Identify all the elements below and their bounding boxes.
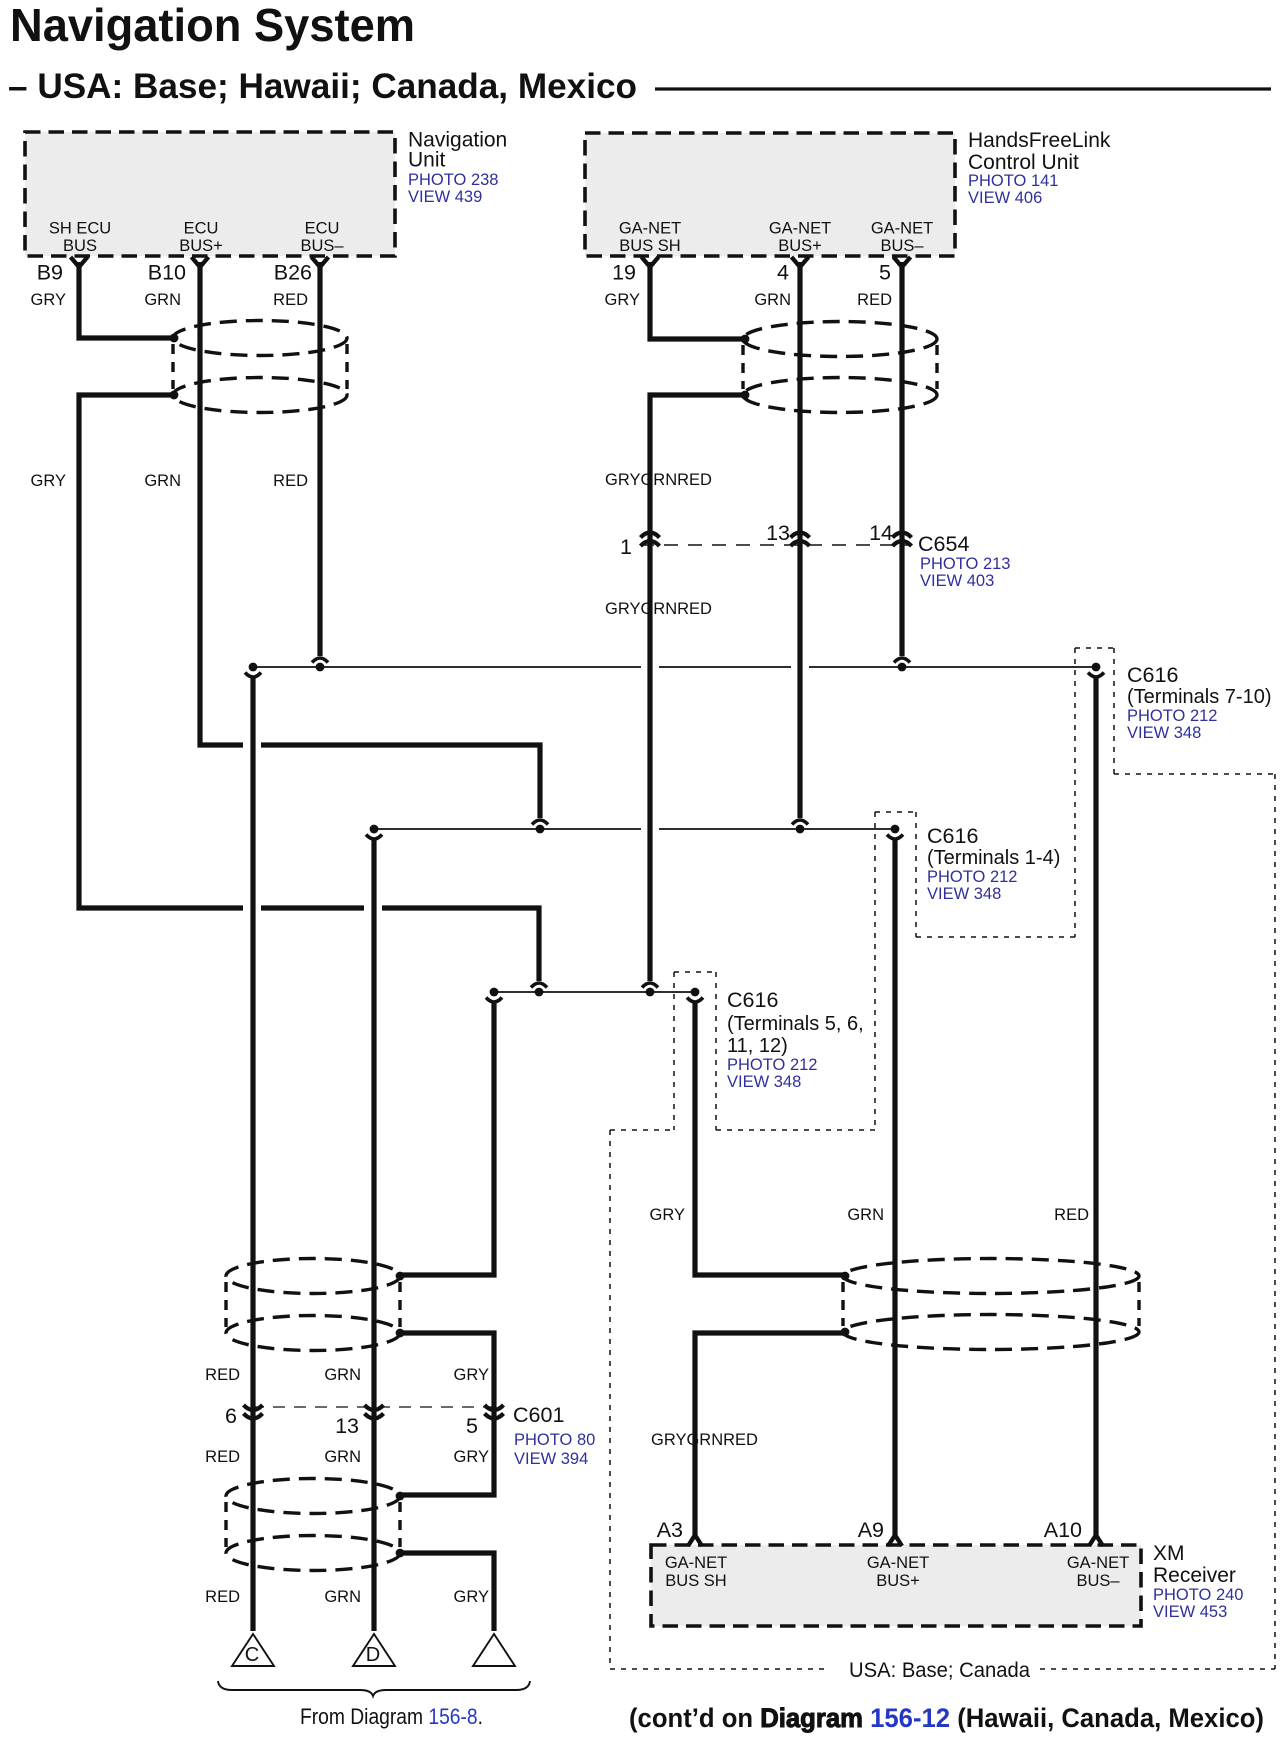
pin 19 — [642, 257, 659, 267]
connector half C616 from GRY right — [642, 983, 658, 988]
svg-text:VIEW 394: VIEW 394 — [514, 1450, 588, 1468]
svg-text:GRY: GRY — [31, 291, 66, 309]
pin B9 — [71, 257, 88, 267]
wire GRY A3 down — [695, 1333, 845, 1536]
svg-text:GA-NET: GA-NET — [665, 1554, 727, 1572]
svg-text:(Terminals 7-10): (Terminals 7-10) — [1127, 686, 1271, 708]
connector half C616 from RED — [312, 658, 328, 663]
svg-text:GA-NET: GA-NET — [871, 220, 933, 238]
svg-text:GRY: GRY — [454, 1366, 489, 1384]
wire GRY segment to C616 5-12 — [382, 908, 539, 981]
svg-text:BUS SH: BUS SH — [665, 1572, 726, 1590]
svg-text:5: 5 — [879, 261, 891, 285]
svg-text:BUS SH: BUS SH — [619, 237, 680, 255]
pin B10 — [192, 257, 209, 267]
junction dot — [170, 334, 179, 343]
C616 7-10 lower half right — [1092, 663, 1101, 672]
svg-text:GA-NET: GA-NET — [1067, 1554, 1129, 1572]
svg-text:GRY: GRY — [454, 1448, 489, 1466]
svg-text:ECU: ECU — [305, 220, 340, 238]
svg-text:C601: C601 — [513, 1403, 564, 1427]
svg-text:1: 1 — [620, 535, 632, 559]
svg-text:Navigation System: Navigation System — [10, 0, 415, 51]
svg-text:C616: C616 — [727, 988, 778, 1012]
svg-text:VIEW 403: VIEW 403 — [920, 572, 994, 590]
junction dot — [396, 1329, 405, 1338]
wire GRY continues to C616 — [650, 395, 745, 981]
wire GRY shield stub — [400, 1333, 494, 1495]
connector C601 line — [252, 1406, 496, 1408]
svg-text:PHOTO 212: PHOTO 212 — [1127, 707, 1217, 725]
svg-text:4: 4 — [777, 261, 789, 285]
svg-text:RED: RED — [273, 291, 308, 309]
svg-text:From Diagram 156-8.: From Diagram 156-8. — [300, 1704, 483, 1729]
svg-text:PHOTO 240: PHOTO 240 — [1153, 1586, 1243, 1604]
svg-text:RED: RED — [205, 1588, 240, 1606]
svg-text:BUS–: BUS– — [1076, 1572, 1120, 1590]
C616 7-10 lower half left — [249, 663, 258, 672]
svg-text:BUS: BUS — [63, 237, 97, 255]
C616 1-4 lower half right — [891, 825, 900, 834]
svg-text:ECU: ECU — [184, 220, 219, 238]
svg-text:6: 6 — [225, 1404, 237, 1428]
svg-text:GRY: GRY — [605, 291, 640, 309]
svg-text:USA: Base; Canada: USA: Base; Canada — [849, 1659, 1030, 1682]
wire GRN segment — [261, 745, 540, 818]
svg-text:B9: B9 — [37, 261, 63, 285]
wire RED to A10 — [1093, 678, 1098, 1536]
svg-text:VIEW 348: VIEW 348 — [727, 1073, 801, 1091]
dashed region USA Base Canada — [609, 1130, 611, 1669]
svg-text:C: C — [245, 1644, 259, 1666]
junction dot — [170, 391, 179, 400]
svg-text:– USA: Base; Hawaii; Canada, M: – USA: Base; Hawaii; Canada, Mexico — [8, 66, 637, 106]
connector C616 5-12 line — [494, 991, 695, 993]
unit box: Navigation Unit — [25, 132, 395, 256]
svg-text:SH ECU: SH ECU — [49, 220, 111, 238]
C654 terminal 1 — [641, 533, 660, 538]
svg-text:GRY: GRY — [31, 472, 66, 490]
svg-text:GRYGRNRED: GRYGRNRED — [605, 471, 712, 489]
svg-text:RED: RED — [273, 472, 308, 490]
svg-text:VIEW 406: VIEW 406 — [968, 189, 1042, 207]
pin A9 — [888, 1535, 902, 1546]
svg-text:VIEW 348: VIEW 348 — [927, 885, 1001, 903]
svg-text:GRN: GRN — [324, 1588, 361, 1606]
svg-text:GRYGRNRED: GRYGRNRED — [651, 1431, 758, 1449]
svg-text:B26: B26 — [274, 261, 312, 285]
wire GRN to triangle D — [371, 840, 376, 1631]
triangle connector C — [232, 1634, 274, 1666]
svg-text:A9: A9 — [858, 1518, 884, 1542]
svg-text:C654: C654 — [918, 532, 969, 556]
brace — [218, 1681, 530, 1696]
svg-text:5: 5 — [466, 1414, 478, 1438]
svg-text:HandsFreeLink: HandsFreeLink — [968, 129, 1111, 152]
wire RED to triangle C — [250, 678, 255, 1631]
svg-text:PHOTO 238: PHOTO 238 — [408, 171, 498, 189]
svg-text:A10: A10 — [1044, 1518, 1082, 1542]
svg-text:GRYGRNRED: GRYGRNRED — [605, 600, 712, 618]
C616 5-12 lower half right — [691, 988, 700, 997]
svg-text:A3: A3 — [657, 1518, 683, 1542]
svg-text:RED: RED — [205, 1448, 240, 1466]
wire GRY pin19 shield — [650, 262, 745, 339]
svg-text:(Terminals 1-4): (Terminals 1-4) — [927, 847, 1060, 869]
svg-text:D: D — [366, 1644, 380, 1666]
wire RED B26 — [317, 262, 322, 656]
pin A3 — [688, 1535, 702, 1546]
svg-text:VIEW 439: VIEW 439 — [408, 188, 482, 206]
svg-text:PHOTO 213: PHOTO 213 — [920, 555, 1010, 573]
svg-text:GRN: GRN — [144, 291, 181, 309]
svg-text:XM: XM — [1153, 1542, 1185, 1565]
svg-text:GRN: GRN — [847, 1206, 884, 1224]
svg-text:(Terminals 5, 6,: (Terminals 5, 6, — [727, 1013, 864, 1035]
junction dot — [396, 1272, 405, 1281]
triangle connector blank — [473, 1634, 515, 1666]
C616 5-12 lower half left — [490, 988, 499, 997]
wire GRY B9 shield — [79, 262, 174, 338]
svg-text:GRN: GRN — [144, 472, 181, 490]
svg-text:BUS+: BUS+ — [179, 237, 223, 255]
svg-text:GA-NET: GA-NET — [769, 220, 831, 238]
svg-text:RED: RED — [205, 1366, 240, 1384]
connector C616 1-4 line — [374, 828, 641, 830]
svg-text:GRY: GRY — [454, 1588, 489, 1606]
junction dot — [396, 1492, 405, 1501]
shield bundle left upper — [173, 321, 347, 356]
connector half C616 from RED right — [894, 658, 910, 663]
svg-text:Receiver: Receiver — [1153, 1564, 1236, 1587]
shield bundle left lower1 — [226, 1259, 400, 1294]
wire GRY lower left — [400, 1003, 494, 1275]
wire GRN to A9 — [892, 840, 897, 1536]
wire GRY segment — [261, 905, 364, 910]
C601 terminal 6 — [244, 1405, 263, 1410]
svg-text:BUS+: BUS+ — [778, 237, 822, 255]
svg-text:VIEW 453: VIEW 453 — [1153, 1603, 1227, 1621]
svg-text:GRN: GRN — [324, 1366, 361, 1384]
connector C616 7-10 line — [253, 666, 641, 668]
connector half C616 from GRN — [532, 820, 548, 825]
svg-text:C616: C616 — [1127, 663, 1178, 687]
junction dot — [841, 1272, 850, 1281]
svg-text:BUS+: BUS+ — [876, 1572, 920, 1590]
svg-text:GRN: GRN — [324, 1448, 361, 1466]
pin 4 — [792, 257, 809, 267]
pin A10 — [1089, 1535, 1103, 1546]
svg-text:PHOTO 212: PHOTO 212 — [727, 1056, 817, 1074]
junction dot — [741, 335, 750, 344]
svg-text:Unit: Unit — [408, 149, 446, 172]
svg-text:BUS–: BUS– — [300, 237, 344, 255]
svg-text:RED: RED — [857, 291, 892, 309]
triangle connector D — [353, 1634, 395, 1666]
wire GRY continues — [79, 395, 243, 908]
wire GRN pin4 — [797, 262, 802, 818]
C601 terminal 5 — [485, 1405, 504, 1410]
svg-text:B10: B10 — [148, 261, 186, 285]
svg-text:BUS–: BUS– — [880, 237, 924, 255]
svg-text:C616: C616 — [927, 824, 978, 848]
wire GRY to triangle — [400, 1553, 494, 1631]
C601 terminal 13 — [365, 1405, 384, 1410]
svg-text:13: 13 — [766, 521, 790, 545]
header rule — [655, 87, 1271, 90]
svg-text:Control Unit: Control Unit — [968, 151, 1079, 174]
svg-text:(cont’d on Diagram 156-12 (Haw: (cont’d on Diagram 156-12 (Hawaii, Canad… — [629, 1703, 1264, 1733]
shield bundle right lower — [843, 1259, 1139, 1294]
pin 5 — [894, 257, 911, 267]
svg-text:RED: RED — [1054, 1206, 1089, 1224]
svg-text:GRN: GRN — [754, 291, 791, 309]
wire GRN B10 — [200, 262, 243, 745]
svg-text:PHOTO 141: PHOTO 141 — [968, 172, 1058, 190]
wire GRY to A3 — [695, 1003, 845, 1275]
C654 terminal 14 — [893, 533, 912, 538]
unit box: HandsFreeLink Control Unit — [585, 133, 955, 256]
shield bundle left lower2 — [226, 1479, 400, 1514]
svg-text:PHOTO 212: PHOTO 212 — [927, 868, 1017, 886]
svg-text:PHOTO 80: PHOTO 80 — [514, 1431, 595, 1449]
svg-text:11, 12): 11, 12) — [727, 1035, 788, 1057]
C654 terminal 13 — [791, 533, 810, 538]
shield bundle right upper — [743, 322, 937, 357]
wire RED pin5 — [899, 262, 904, 656]
svg-text:VIEW 348: VIEW 348 — [1127, 724, 1201, 742]
svg-text:13: 13 — [335, 1414, 359, 1438]
connector half C616 from GRN right — [792, 820, 808, 825]
junction dot — [741, 391, 750, 400]
C616 1-4 lower half left — [370, 825, 379, 834]
junction dot — [841, 1328, 850, 1337]
connector C654 line — [640, 544, 912, 546]
pin B26 — [312, 257, 329, 267]
svg-text:GA-NET: GA-NET — [619, 220, 681, 238]
svg-text:GA-NET: GA-NET — [867, 1554, 929, 1572]
junction dot — [396, 1549, 405, 1558]
svg-text:14: 14 — [869, 521, 893, 545]
svg-text:GRY: GRY — [650, 1206, 685, 1224]
svg-text:19: 19 — [612, 261, 636, 285]
unit box: XM Receiver — [651, 1545, 1141, 1626]
connector half C616 from GRY — [531, 983, 547, 988]
